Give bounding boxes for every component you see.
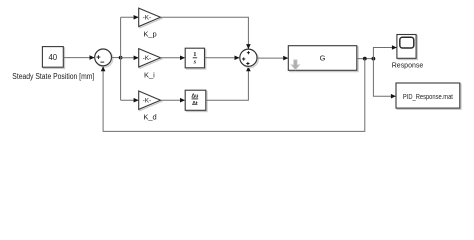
svg-text:K_i: K_i (144, 71, 155, 80)
gain K_i (triangle) (139, 49, 162, 80)
constant block Const "40" (42, 47, 64, 69)
wire: integrator output to sum2 left (205, 57, 240, 59)
svg-text:Δt: Δt (192, 101, 198, 107)
wire: into gain K_d (121, 99, 139, 101)
svg-text:-K-: -K- (143, 98, 152, 105)
node: scope/file junction dot (372, 57, 376, 61)
wire: K_p output to sum2 top (161, 17, 249, 48)
svg-text:Response: Response (392, 61, 424, 70)
sum junction S2 (240, 49, 259, 68)
gray model-reference arrow icon (291, 60, 300, 70)
derivative block du/dt (185, 90, 207, 111)
wire: derivative output to sum2 bottom (206, 67, 249, 100)
wire: constant to sum1 (63, 57, 94, 59)
svg-text:G: G (320, 53, 326, 62)
svg-text:Steady State Position [mm]: Steady State Position [mm] (12, 72, 94, 81)
svg-text:K_d: K_d (143, 112, 156, 121)
wire: branch up to Scope (373, 48, 396, 59)
svg-text:1: 1 (193, 51, 196, 58)
node: branch junction dot (119, 56, 123, 60)
sum junction S1 (95, 49, 113, 67)
svg-text:K_p: K_p (143, 29, 156, 38)
svg-text:-K-: -K- (143, 55, 152, 62)
svg-text:40: 40 (48, 53, 57, 62)
wire: sum2 output to plant G (257, 57, 288, 59)
wire: G output (357, 58, 374, 60)
wire: K_d output into derivative (161, 99, 185, 101)
wire: sum1 output to branch node (112, 57, 121, 59)
To File block PID_Response.mat (396, 83, 461, 109)
integrator block 1/s (185, 48, 206, 69)
gain K_p (triangle) (139, 8, 162, 38)
svg-text:s: s (193, 58, 197, 65)
svg-text:-K-: -K- (143, 15, 152, 22)
node: feedback junction dot (363, 57, 367, 61)
wire: feedback to sum1 bottom (103, 59, 365, 132)
svg-text:PID_Response.mat: PID_Response.mat (403, 92, 453, 101)
wire: K_i output into integrator (161, 57, 185, 59)
wire: branch down to To File (373, 59, 395, 97)
plant block G (288, 46, 358, 72)
wire: branch vertical (to K_p and K_d rows) (120, 17, 122, 100)
wire: into gain K_p (121, 16, 139, 18)
gain K_d (triangle) (139, 91, 162, 121)
scope block Response (392, 35, 424, 70)
wire: into gain K_i (121, 57, 139, 59)
